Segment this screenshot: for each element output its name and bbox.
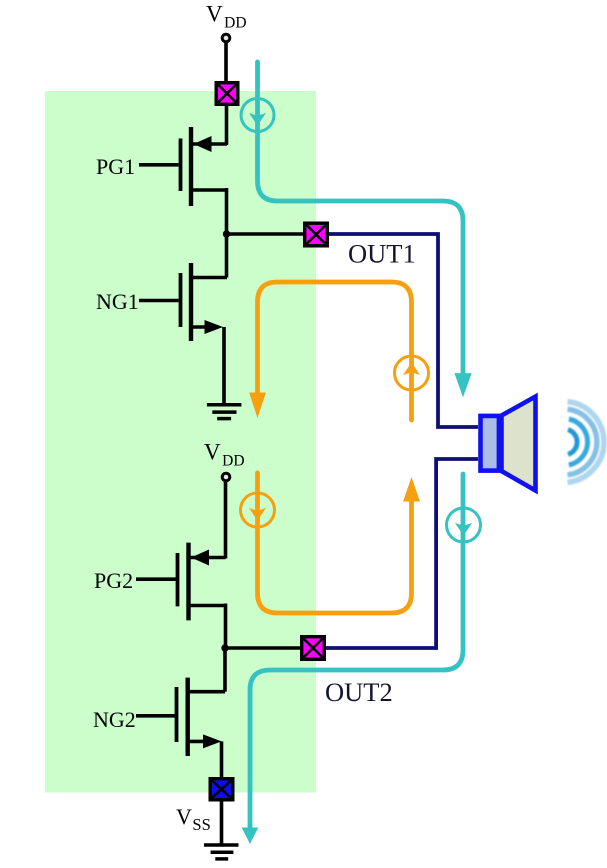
current source symbol I1 (cyan circled arrow) (241, 99, 274, 132)
current path I1 lower (cyan), speaker out to VSS (250, 474, 463, 828)
wire VDD2 to PG2 source (224, 482, 228, 559)
wire PG1 drain to node OUT1 (225, 188, 229, 236)
speaker coil box (481, 416, 499, 471)
transistor PG2 (PMOS) (136, 543, 226, 621)
svg-text:PG2: PG2 (94, 568, 133, 593)
current source symbol I2 (orange circled arrow, up) (395, 356, 429, 390)
wire node OUT1 to pad F2 (227, 232, 304, 236)
wire PG2 drain to node OUT2 (224, 604, 228, 651)
node OUT2 junction (221, 644, 228, 651)
power terminal VDD1 (222, 34, 230, 42)
speaker horn (502, 397, 536, 491)
svg-text:VSS: VSS (176, 804, 211, 834)
current path I2 lower (orange), VDD2 to speaker (258, 473, 412, 613)
svg-text:PG1: PG1 (96, 154, 135, 179)
transistor NG2 (NMOS) (136, 678, 225, 756)
svg-text:NG1: NG1 (96, 289, 139, 314)
power terminal VDD2 (222, 473, 230, 481)
pad F3 (magenta crossed box) (302, 637, 325, 660)
current source symbol I2b (orange circled arrow, down) (241, 493, 275, 527)
current source symbol I1b (cyan circled arrow, down) (447, 508, 481, 542)
pad F1 (magenta crossed box) (216, 83, 238, 105)
ground GND2 (204, 845, 239, 859)
wire pad F1 to PG1 source (225, 106, 229, 145)
svg-text:VDD: VDD (206, 2, 247, 32)
current path I1 upper (cyan) (258, 62, 464, 374)
chip region (green highlight) (45, 91, 316, 793)
pad F2 (magenta crossed box) (305, 223, 328, 246)
arrowhead I2 into ground (249, 393, 266, 419)
ground GND1 (207, 405, 242, 419)
transistor PG1 (PMOS) (139, 127, 227, 206)
speaker LS1 (481, 397, 536, 491)
svg-text:OUT2: OUT2 (325, 677, 393, 707)
wire NG1 source to ground (222, 327, 226, 405)
svg-text:OUT1: OUT1 (348, 239, 416, 269)
node OUT1 junction (223, 230, 230, 237)
wire NG2 source to pad F4 (220, 741, 224, 778)
wire pad F4 to ground GND2 (220, 802, 224, 846)
arrowhead I1 into speaker (454, 373, 471, 397)
wire OUT1 to speaker (navy) (329, 234, 478, 427)
svg-text:NG2: NG2 (93, 707, 136, 732)
wire OUT2 to speaker (navy) (326, 459, 478, 648)
current path I2 upper (orange), speaker out to GND1 (258, 282, 412, 420)
wire NG2 drain to node OUT2 (223, 646, 227, 692)
sound waves (568, 402, 604, 483)
arrowhead I2 into speaker (403, 477, 420, 502)
wire VDD1 to pad F1 (224, 43, 228, 82)
pad F4 (blue crossed box) (210, 779, 233, 800)
arrowhead I1 into VSS ground (242, 828, 259, 845)
wire node OUT2 to pad F3 (225, 646, 300, 650)
transistor NG1 (NMOS) (139, 263, 227, 341)
wire NG1 drain to node OUT1 (225, 232, 229, 278)
